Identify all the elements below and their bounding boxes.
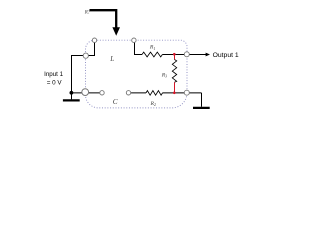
red lead below R3 [174, 82, 176, 93]
wire C port right to R2 [129, 92, 147, 94]
dashed outline of removed LC component [86, 40, 188, 108]
svg-text:C: C [113, 98, 118, 106]
wire top-right L port down to R1 row [134, 40, 142, 54]
resistor R2 [146, 91, 163, 96]
wire input to L port [71, 40, 95, 56]
junction red node bottom [173, 92, 176, 95]
terminal node left middle [83, 53, 88, 58]
svg-text:R2: R2 [150, 101, 156, 107]
wire R1 to output node [162, 54, 187, 56]
svg-text:R3: R3 [161, 73, 167, 79]
resistor R3 [172, 60, 176, 83]
svg-text:L: L [109, 55, 114, 63]
wire R2 to right node and to ground [163, 93, 202, 107]
output arrow [187, 53, 210, 57]
label Input 1 = 0 V [44, 71, 63, 86]
ground (left) [63, 99, 80, 101]
junction dot (input/bottom rail) [70, 91, 74, 95]
terminal node bottom-left (large) [82, 89, 89, 96]
ground (right) [193, 107, 210, 109]
annotation arrow [90, 10, 121, 36]
terminal node C left [100, 91, 104, 95]
wire bottom-left row [71, 92, 102, 94]
svg-text:R1: R1 [149, 45, 155, 51]
terminal node top-right of L [132, 38, 136, 42]
terminal node top-left of L [92, 38, 96, 42]
terminal node output [184, 52, 189, 57]
terminal node bottom-right [184, 90, 189, 95]
svg-text:Output 1: Output 1 [213, 52, 239, 59]
junction red node top [173, 53, 176, 56]
svg-text:= 0 V: = 0 V [47, 80, 63, 87]
resistor R1 [142, 52, 162, 57]
wire input column [71, 56, 73, 100]
red lead above R3 [174, 55, 176, 60]
svg-text:Input 1: Input 1 [44, 71, 63, 78]
terminal node C right [126, 91, 130, 95]
